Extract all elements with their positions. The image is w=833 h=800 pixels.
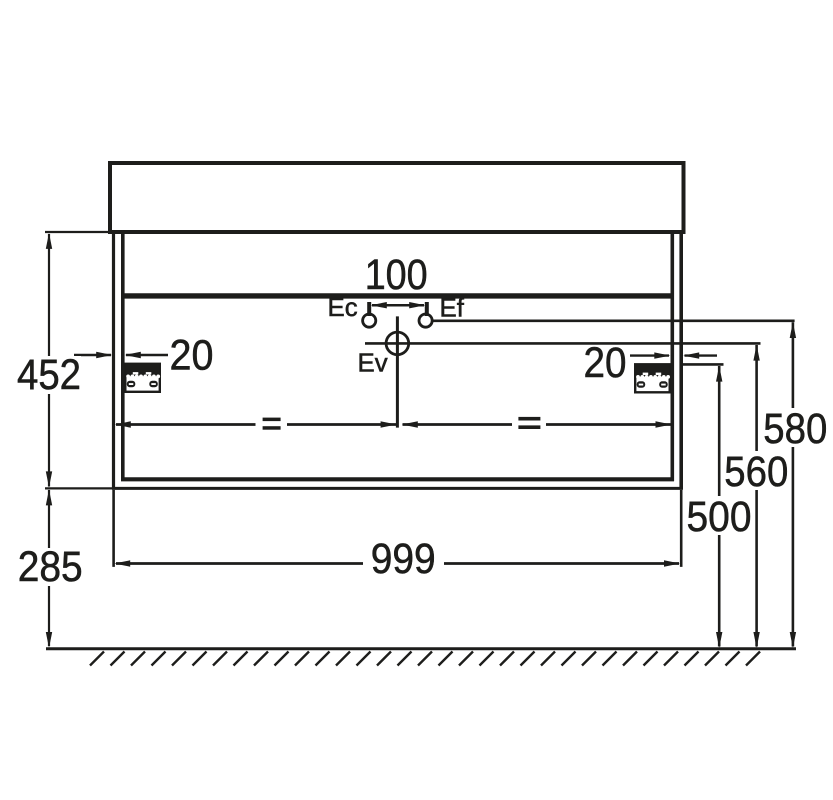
svg-text:20: 20	[584, 340, 627, 387]
svg-text:500: 500	[687, 494, 752, 541]
svg-text:Ef: Ef	[440, 295, 465, 323]
svg-text:100: 100	[365, 252, 428, 299]
svg-text:Ec: Ec	[328, 294, 358, 322]
svg-text:Ev: Ev	[358, 350, 388, 378]
svg-text:452: 452	[17, 352, 81, 399]
svg-text:999: 999	[371, 536, 436, 583]
svg-text:560: 560	[724, 449, 788, 496]
svg-text:580: 580	[763, 406, 827, 453]
svg-text:20: 20	[170, 333, 214, 380]
svg-text:285: 285	[18, 544, 83, 591]
